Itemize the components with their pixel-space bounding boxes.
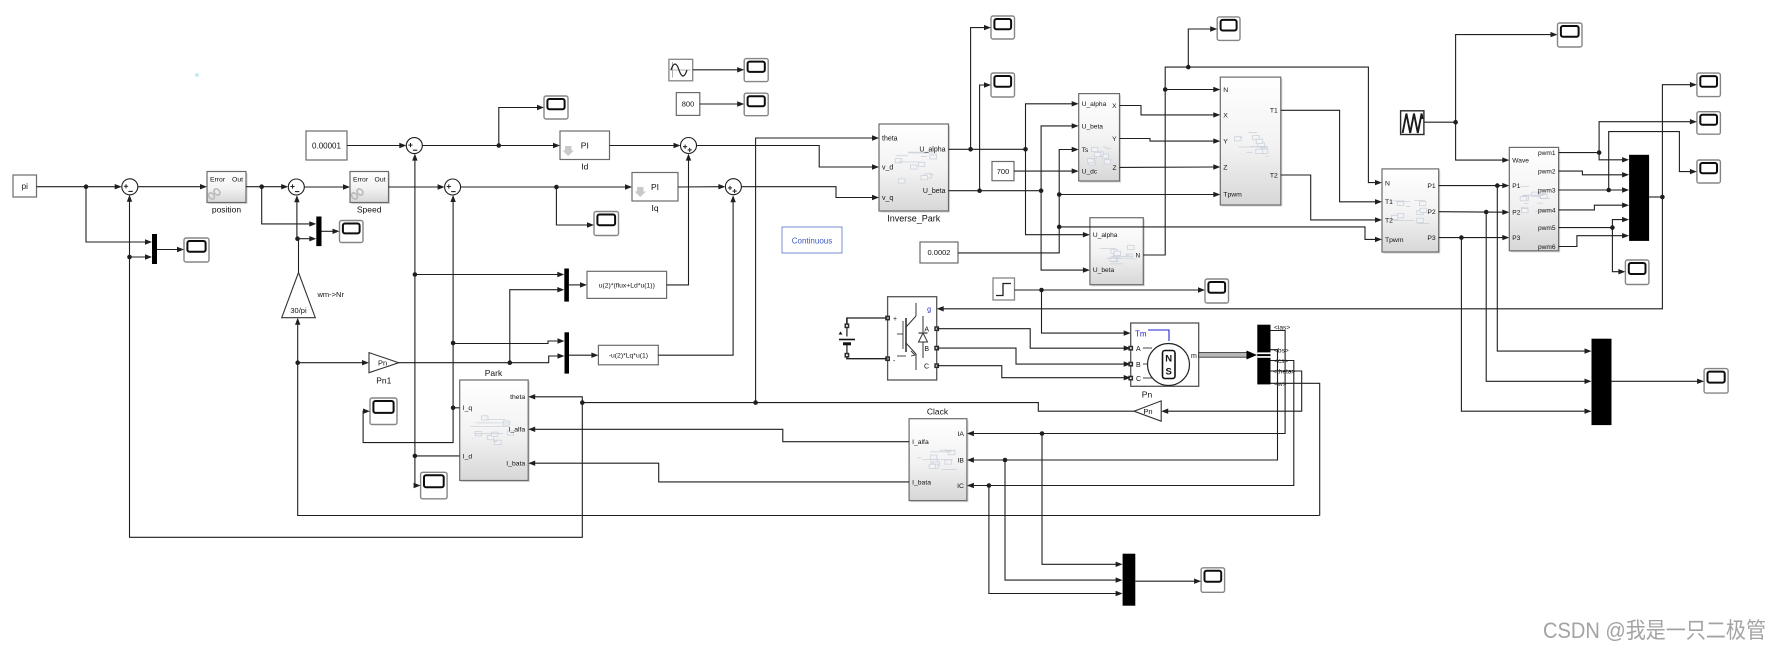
svg-text:Speed: Speed	[357, 205, 382, 215]
svg-text:Wave: Wave	[1512, 158, 1529, 165]
wire bus <bs> to Clack IB	[967, 350, 1278, 463]
input constant block pi	[13, 175, 37, 197]
wire Lq fcn to S6 bottom	[658, 195, 736, 355]
wire pwm bundle to scope	[1662, 82, 1697, 197]
wire Y to switching block	[1120, 138, 1221, 143]
svg-text:theta: theta	[510, 394, 525, 401]
scope for I_d	[421, 472, 448, 499]
svg-text:X: X	[1112, 103, 1117, 110]
scope for I_q	[370, 398, 397, 425]
svg-text:Inverse_Park: Inverse_Park	[887, 214, 941, 224]
wire position to S2	[246, 184, 288, 189]
svg-text:U_beta: U_beta	[1093, 267, 1115, 274]
wire flux fcn to S5 bottom	[667, 154, 692, 285]
wire pwm2 to mux M5	[1559, 171, 1630, 177]
svg-text:P1: P1	[1427, 183, 1436, 190]
measurement bus wire m to bus selector	[1199, 351, 1257, 360]
sum junction S3 (id error)	[406, 138, 422, 154]
sine wave source block	[669, 59, 693, 81]
scope for sector N	[1217, 17, 1240, 41]
mux M7 (IA IB IC bundle)	[1123, 554, 1136, 606]
wire branch U_alpha to scope	[971, 25, 991, 149]
svg-text:Z: Z	[1223, 164, 1227, 171]
wire branch id ref to scope	[499, 105, 544, 146]
svg-text:Error: Error	[210, 176, 226, 183]
svg-text:pwm1: pwm1	[1538, 150, 1556, 157]
wire 700 to U_dc	[1014, 168, 1079, 173]
wire bus <cs> to Clack IC	[967, 361, 1294, 489]
svg-text:pwm6: pwm6	[1538, 244, 1556, 251]
wire P3 to Wave	[1439, 235, 1510, 240]
constant block 800	[676, 93, 700, 116]
svg-text:U_alpha: U_alpha	[919, 147, 945, 154]
svg-text:N: N	[1223, 87, 1228, 94]
svg-text:pi: pi	[22, 182, 28, 191]
svg-text:pwm2: pwm2	[1538, 169, 1556, 176]
svg-text:Y: Y	[1112, 136, 1117, 143]
svg-text:Out: Out	[232, 176, 243, 183]
constant block 0.00001 (id reference)	[306, 131, 347, 160]
wire IGBT C to motor C	[937, 366, 1131, 381]
svg-text:N: N	[1165, 354, 1172, 365]
svg-text:I_q: I_q	[463, 405, 473, 412]
universal bridge IGBT inverter block	[885, 297, 939, 380]
annotation box Continuous (powergui)	[782, 227, 842, 253]
PMSM motor block (Pn)	[1128, 323, 1198, 400]
wire sector N distribution	[1143, 65, 1382, 255]
svg-text:700: 700	[997, 167, 1010, 176]
svg-text:U_dc: U_dc	[1082, 169, 1098, 176]
svg-text:<bs>: <bs>	[1274, 348, 1289, 355]
subsystem sector calculation N (U_alpha,U_beta to N)	[1090, 218, 1145, 287]
svg-text:800: 800	[682, 100, 695, 109]
wire branch we to mux M3 input 2	[510, 287, 565, 363]
gray arrow icon in Iq PI block	[635, 187, 647, 197]
wire branch pwm5 to scope	[1612, 228, 1625, 275]
wire mux M3 to flux fcn	[569, 282, 587, 287]
decoration artifact dot	[195, 73, 199, 77]
wire branch pwm1 to scope	[1599, 119, 1697, 153]
svg-text:Error: Error	[353, 176, 369, 183]
wire carrier to Wave block	[1456, 122, 1510, 163]
wire pi to S1	[37, 184, 122, 189]
wire Ts branch to Tpwm left block	[1059, 192, 1220, 197]
fcn block u(2)*(flux+Ld*u(1))	[587, 271, 667, 298]
wire theta feedback to S1 and branch	[127, 195, 583, 538]
wire S4 to Iq PI	[461, 184, 632, 189]
svg-text:Iq: Iq	[651, 203, 658, 213]
scope for P mux	[1704, 369, 1728, 394]
sum junction S1 (position error)	[122, 179, 138, 195]
svg-text:v_d: v_d	[882, 164, 893, 171]
wire S5 to Inverse_Park v_d	[697, 146, 880, 170]
scope Scope2 (speed)	[340, 221, 364, 243]
subsystem Clack (Clarke transform)	[909, 419, 968, 502]
svg-text:P1: P1	[1512, 183, 1520, 190]
wire I_q down branch to scope loop	[363, 408, 453, 443]
wire triangle carrier junction	[1424, 120, 1458, 125]
wire U_beta to sector block	[1041, 191, 1090, 273]
wire U_alpha to XYZ block	[1026, 101, 1079, 149]
wire branch to mux M2 input 1	[262, 187, 317, 227]
wire carrier to scope	[1456, 32, 1558, 122]
svg-text:Continuous: Continuous	[792, 237, 832, 246]
subsystem Wave (PWM generator pwm1-pwm6)	[1509, 147, 1560, 252]
fcn block -u(2)*Lq*u(1)	[598, 345, 658, 365]
gray arrow icon in Id PI block	[563, 146, 575, 156]
svg-text:CSDN @我是一只二极管: CSDN @我是一只二极管	[1543, 618, 1766, 643]
wire S2 to Speed	[304, 184, 350, 189]
wire 800 to scope	[700, 101, 744, 106]
svg-text:Tpwm: Tpwm	[1385, 237, 1404, 244]
mux M3 (flux fcn inputs)	[564, 269, 569, 302]
wire mux M5 to gate feedback junction	[1649, 195, 1665, 200]
svg-text:pwm3: pwm3	[1538, 187, 1556, 194]
wire Z to switching block	[1120, 164, 1221, 169]
wire Clack I_bata to Park	[528, 461, 909, 482]
scope pwm group 3	[1697, 160, 1721, 183]
wire sine to scope	[693, 67, 745, 72]
wire branch cs to mux M7 input 3	[989, 486, 1123, 597]
wire theta into Inverse_Park	[756, 135, 879, 402]
svg-text:A: A	[1136, 346, 1141, 353]
wire U_alpha to sector block	[1026, 149, 1090, 237]
scope for U_alpha	[991, 16, 1015, 39]
wire branch I_d to scope	[414, 456, 421, 488]
wire w feedback to 30/pi gain	[295, 318, 1320, 516]
svg-text:B: B	[924, 346, 929, 353]
svg-text:Out: Out	[375, 176, 386, 183]
svg-text:v_q: v_q	[882, 195, 893, 202]
svg-text:Pn1: Pn1	[376, 376, 391, 386]
svg-text:position: position	[212, 205, 242, 215]
wire U_beta to XYZ block	[1041, 123, 1079, 191]
subsystem Inverse_Park	[879, 124, 950, 224]
svg-text:P2: P2	[1512, 210, 1520, 217]
wire T1 to PWM block	[1281, 110, 1382, 204]
wire theta into Park	[528, 394, 582, 403]
wire N to switching block	[1165, 87, 1220, 92]
wire branch I_d to mux M3 input 1	[415, 272, 564, 277]
scope for current mux	[1201, 568, 1225, 593]
subsystem switching time T1 T2 (N,X,Y,Z,Tpwm to T1,T2)	[1220, 77, 1282, 207]
gain block 30/pi (wm->Nr)	[282, 273, 316, 318]
sum junction S5 (vd decoupling add)	[681, 138, 697, 154]
wire Clack I_alfa to Park	[528, 427, 909, 442]
wire T2 to PWM block	[1281, 175, 1382, 223]
wire X to switching block	[1120, 106, 1221, 118]
scope on iq branch	[594, 212, 619, 236]
wire P2 to Wave	[1439, 210, 1510, 215]
wire battery positive to bridge	[847, 318, 888, 324]
svg-text:U_alpha: U_alpha	[1093, 232, 1118, 239]
wire 0.0002 to Ts	[958, 147, 1079, 253]
sum junction S6 (vq decoupling add)	[725, 179, 741, 195]
svg-text:C: C	[924, 364, 929, 371]
wire branch P2 to mux M6 input 2	[1486, 212, 1591, 384]
svg-text:theta: theta	[882, 135, 898, 142]
svg-text:I_bata: I_bata	[506, 461, 525, 468]
wire Pn1 to mux M4 input 2	[399, 353, 565, 365]
wire bus <theta> to Pn gain	[1161, 371, 1302, 414]
svg-text:<theta>: <theta>	[1273, 369, 1296, 376]
svg-text:Park: Park	[485, 368, 503, 378]
wire step to scope	[1015, 287, 1206, 292]
wire S1 to position	[138, 184, 207, 189]
PI controller subsystem 'position'	[207, 172, 248, 215]
wire bus <ias> to Clack IA	[967, 331, 1285, 437]
wire branch P1 to mux M6 input 1	[1497, 186, 1591, 354]
wire branch w to Pn1 gain	[298, 360, 369, 365]
wire branch I_q to mux M4 input 1	[453, 338, 564, 343]
svg-text:I_d: I_d	[463, 453, 473, 460]
mux M6 (P1 P2 P3 bundle)	[1592, 339, 1612, 425]
wire pwm bundle to IGBT gate g	[937, 197, 1663, 312]
constant block 0.0002 (Ts)	[920, 242, 958, 263]
PI block Iq current controller	[632, 173, 678, 214]
svg-text:X: X	[1223, 112, 1228, 119]
wire 30/pi output to S2 bottom	[294, 195, 300, 272]
wire IGBT A to motor A	[937, 329, 1131, 351]
scope for U_beta	[991, 73, 1015, 97]
wire pwm6 to mux M5	[1559, 233, 1630, 247]
svg-text:U_alpha: U_alpha	[1082, 101, 1107, 108]
PI controller subsystem 'Speed'	[350, 172, 390, 215]
wire branch bs to mux M7 input 2	[1005, 460, 1123, 583]
svg-text:Tpwm: Tpwm	[1223, 192, 1242, 199]
wire mux M1 to position scope	[157, 247, 184, 252]
svg-text:S: S	[1166, 367, 1172, 378]
svg-text:0.0002: 0.0002	[928, 248, 951, 257]
wire mux M7 to current scope	[1135, 579, 1201, 584]
wire U_beta distribution	[949, 188, 1044, 193]
sum junction S2 (speed error)	[288, 179, 304, 195]
svg-text:IA: IA	[957, 431, 964, 438]
wire mux M2 to speed scope	[322, 229, 340, 234]
wire Iq PI to S6	[678, 184, 725, 189]
wire branch Nr to mux M2 input 2	[298, 236, 317, 241]
bus selector (ias,bs,cs,theta,w)	[1257, 325, 1270, 385]
wire pwm5 to mux M5	[1559, 217, 1630, 230]
mux M1 (position display)	[152, 234, 157, 264]
scope on id reference branch	[544, 96, 568, 119]
svg-text:PI: PI	[651, 182, 659, 192]
svg-text:U_beta: U_beta	[923, 188, 946, 195]
wire Park I_q to S4 bottom	[450, 195, 459, 410]
wire Id PI to S5	[610, 143, 681, 148]
svg-text:u(2)*(flux+Ld*u(1)): u(2)*(flux+Ld*u(1))	[599, 282, 655, 289]
wire pwm3 to mux M5	[1559, 187, 1630, 192]
step source block	[993, 278, 1015, 300]
wire Ts branch to Tpwm right block	[1059, 227, 1382, 242]
svg-text:Z: Z	[1112, 165, 1116, 172]
svg-text:I_bata: I_bata	[912, 479, 931, 486]
wire battery negative to bridge	[847, 358, 888, 359]
scope below pwm mux	[1625, 260, 1649, 285]
svg-text:Tm: Tm	[1135, 330, 1147, 339]
svg-text:IB: IB	[957, 457, 964, 464]
wire S3 to Id PI	[422, 143, 560, 148]
svg-text:Pn: Pn	[1142, 390, 1153, 400]
svg-text:N: N	[1385, 181, 1390, 188]
wire branch pi to mux M1 input 1	[86, 187, 152, 245]
wire Speed to S4	[389, 184, 445, 189]
mux M4 (Lq fcn inputs)	[565, 332, 570, 373]
svg-text:PI: PI	[581, 140, 589, 150]
wire branch P3 to mux M6 input 3	[1461, 238, 1591, 414]
svg-text:T1: T1	[1385, 199, 1393, 206]
scope on step / Tm line	[1205, 279, 1229, 303]
wire branch theta to mux M1 input 2	[130, 254, 153, 259]
svg-text:Pn: Pn	[1143, 407, 1152, 416]
svg-text:N: N	[1136, 252, 1141, 259]
svg-text:I_alfa: I_alfa	[912, 439, 929, 446]
svg-text:T1: T1	[1270, 108, 1278, 115]
svg-text:Pn: Pn	[378, 359, 387, 368]
scope for constant 800	[744, 93, 768, 116]
svg-text:U_beta: U_beta	[1082, 123, 1104, 130]
PI block Id current controller	[560, 131, 610, 172]
svg-text:wm->Nr: wm->Nr	[317, 290, 345, 299]
scope pwm group 2	[1697, 112, 1721, 135]
svg-text:Clack: Clack	[927, 407, 949, 417]
svg-text:Id: Id	[581, 162, 588, 172]
svg-text:+: +	[893, 316, 897, 323]
subsystem Park (Park transform)	[460, 380, 530, 482]
mux M2 (speed display)	[316, 217, 321, 247]
scope pwm group 1	[1697, 73, 1721, 97]
wire branch pwm3 to scope	[1609, 132, 1697, 190]
svg-text:pwm5: pwm5	[1538, 225, 1556, 232]
svg-text:IC: IC	[957, 483, 964, 490]
svg-text:-u(2)*Lq*u(1): -u(2)*Lq*u(1)	[609, 353, 648, 360]
wire pwm4 to mux M5	[1559, 203, 1630, 210]
wire bus <w> down to w feedback	[1271, 383, 1320, 515]
wire mux M4 to Lq fcn	[569, 353, 598, 358]
wire 0.00001 to S3	[347, 143, 406, 148]
wire branch ias to mux M7 input 1	[1042, 434, 1123, 568]
broken-link icon inside position block	[207, 188, 221, 201]
svg-text:T2: T2	[1385, 217, 1393, 224]
wire pwm1 to mux M5	[1559, 150, 1630, 162]
wire theta electrical distribution	[580, 400, 1134, 411]
wire S6 to Inverse_Park v_q	[741, 187, 879, 201]
subsystem XYZ calculation (U_alpha,U_beta,Ts,U_dc to X,Y,Z)	[1079, 94, 1121, 183]
wire U_alpha distribution	[949, 147, 1028, 152]
svg-text:m: m	[1191, 353, 1197, 360]
wire branch U_beta to scope	[980, 82, 991, 190]
svg-text:B: B	[1136, 362, 1141, 369]
svg-text:P2: P2	[1427, 209, 1436, 216]
svg-text:P3: P3	[1427, 235, 1436, 242]
subsystem PWM duty P1 P2 P3 (N,T1,T2,Tpwm to P1,P2,P3)	[1382, 169, 1440, 254]
DC voltage source battery	[839, 318, 856, 359]
wire branch iq error to scope	[556, 187, 594, 228]
wire mux M6 to scope	[1612, 379, 1705, 384]
wire Park I_d to S3 bottom	[412, 154, 460, 459]
scope for sine wave	[744, 59, 768, 82]
svg-text:C: C	[1136, 376, 1141, 383]
svg-text:T2: T2	[1270, 172, 1278, 179]
gain block Pn (pole pairs, mirrored)	[1134, 401, 1161, 421]
broken-link icon inside Speed block	[350, 188, 364, 201]
svg-text:<cs>: <cs>	[1274, 358, 1288, 365]
wire P1 to Wave	[1439, 183, 1510, 188]
svg-text:P3: P3	[1512, 235, 1520, 242]
svg-text:30/pi: 30/pi	[290, 306, 307, 315]
repeating sequence triangle wave source	[1401, 111, 1424, 135]
gain block Pn1	[369, 353, 399, 386]
sum junction S4 (iq error)	[445, 179, 461, 195]
svg-text:Y: Y	[1223, 139, 1228, 146]
constant block 700 (Udc)	[992, 162, 1014, 181]
mux M5 (pwm bundle 6 inputs)	[1629, 155, 1649, 241]
svg-text:0.00001: 0.00001	[312, 141, 341, 150]
svg-text:g: g	[927, 307, 931, 314]
scope for triangle carrier	[1558, 23, 1583, 47]
wire branch N to scope	[1188, 26, 1217, 67]
svg-text:I_alfa: I_alfa	[509, 427, 526, 434]
wire branch step to motor Tm	[1042, 290, 1131, 336]
scope Scope1 (position)	[184, 238, 209, 262]
svg-text:Ts: Ts	[1082, 147, 1089, 154]
wire IGBT B to motor B	[937, 348, 1131, 367]
svg-text:pwm4: pwm4	[1538, 207, 1556, 214]
